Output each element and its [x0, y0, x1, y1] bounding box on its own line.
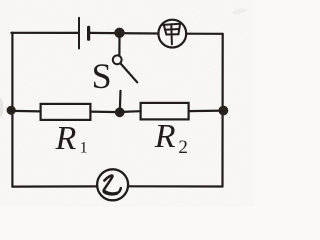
wire left node to R1 — [12, 110, 41, 113]
node junction right — [219, 106, 228, 115]
乙 glyph stroke — [104, 175, 121, 194]
svg-text:S: S — [92, 56, 112, 96]
wire meter 乙 to bottom-left corner — [12, 185, 97, 187]
wire R1 to middle node — [90, 110, 119, 113]
node junction left — [7, 106, 15, 114]
svg-text:R: R — [154, 118, 176, 155]
wire middle node to R2 — [120, 110, 141, 113]
node junction middle — [115, 108, 124, 117]
resistor R1 box — [41, 104, 91, 120]
甲 glyph strokes — [163, 24, 181, 45]
wire battery to meter 甲 — [89, 32, 159, 35]
svg-text:R: R — [55, 120, 77, 157]
node junction top (switch tap) — [115, 28, 124, 37]
wire switch lower lead — [119, 91, 122, 112]
wire right edge — [221, 34, 223, 187]
battery B short plate — [87, 27, 90, 39]
battery B long plate — [78, 18, 80, 49]
svg-text:2: 2 — [178, 137, 188, 158]
svg-text:1: 1 — [80, 140, 88, 157]
paper grain overlay — [0, 0, 253, 207]
switch S pivot circle — [113, 55, 122, 64]
switch S blade (open) — [121, 63, 138, 82]
乙 bottom thick curve — [105, 192, 117, 194]
meter 乙 circle — [97, 169, 128, 200]
faint scan smudge left edge — [0, 98, 3, 118]
wire left edge — [11, 33, 13, 187]
wire meter 甲 to top-right corner — [186, 33, 223, 35]
wire bottom right to meter 乙 — [128, 185, 222, 187]
wire top-left to battery — [11, 32, 78, 34]
faint scan smudge top-right — [232, 8, 248, 15]
resistor R2 box — [141, 103, 189, 120]
wire switch upper lead — [118, 33, 120, 55]
ammeter 甲 circle — [158, 20, 186, 48]
wire R2 to right node — [189, 109, 224, 112]
